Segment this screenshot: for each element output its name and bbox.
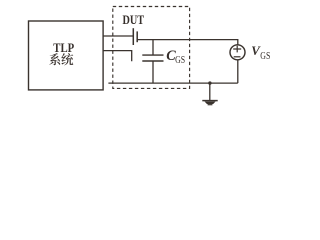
capacitor CGS bottom lead — [152, 61, 154, 83]
svg-text:GS: GS — [260, 51, 270, 62]
DUT dashed enclosure — [113, 7, 190, 89]
junction dot — [208, 81, 211, 84]
capacitor CGS bottom plate — [142, 60, 163, 62]
svg-text:DUT: DUT — [123, 13, 145, 27]
minus sign in VGS — [234, 56, 241, 58]
svg-text:GS: GS — [175, 55, 185, 66]
label 系统 (drawn glyph paths) — [49, 53, 73, 65]
capacitor CGS top lead — [152, 40, 154, 56]
TLP system box — [29, 21, 104, 90]
svg-text:TLP: TLP — [53, 40, 74, 55]
ground symbol bottom bar — [208, 104, 213, 106]
plus sign in VGS — [233, 46, 241, 53]
ground symbol top bar — [202, 100, 217, 102]
transistor channel plate (right bar) — [136, 31, 138, 42]
VGS source circle — [230, 45, 245, 60]
transistor gate plate (left bar) — [132, 28, 134, 45]
ground stem — [209, 83, 211, 100]
wire: channel bar to VGS source corner — [137, 40, 238, 45]
ground symbol middle filled bar — [205, 102, 216, 105]
wire: TLP bottom output with drop — [103, 51, 132, 62]
wire: TLP top output to DUT gate — [103, 35, 133, 37]
wire: VGS bottom to ground rail — [237, 60, 239, 83]
bottom ground rail — [108, 82, 237, 84]
capacitor CGS top plate — [142, 54, 163, 56]
